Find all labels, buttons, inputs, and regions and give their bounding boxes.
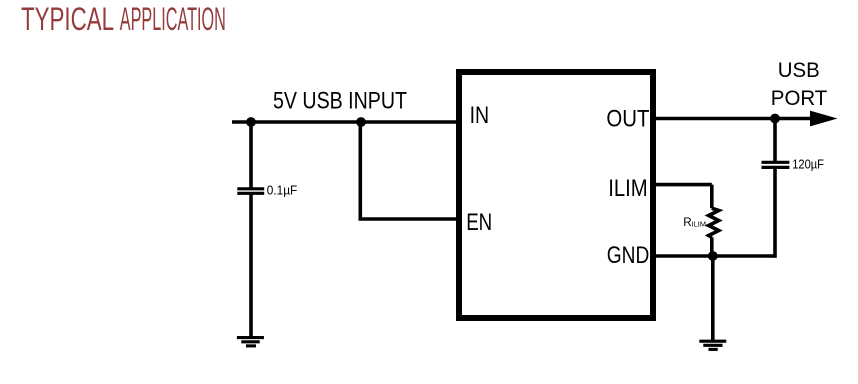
svg-text:5V USB INPUT: 5V USB INPUT — [273, 87, 407, 114]
wire: ILIM pin lead — [653, 183, 712, 187]
wire: GND2 lead — [711, 256, 715, 341]
capacitor C1 plates — [237, 187, 264, 190]
wire: EN branch horizontal — [359, 217, 460, 221]
IC U1 body — [459, 72, 653, 318]
ground GND1 — [237, 338, 264, 346]
wire: C2 bottom lead — [773, 167, 777, 257]
wire: R top lead — [710, 185, 714, 209]
svg-text:APPLICATION: APPLICATION — [120, 1, 226, 37]
svg-text:OUT: OUT — [606, 106, 649, 133]
svg-text:USB: USB — [778, 59, 820, 82]
svg-text:120µF: 120µF — [792, 157, 824, 172]
svg-text:RILIM: RILIM — [683, 216, 706, 229]
ground GND2 — [699, 341, 726, 349]
svg-text:EN: EN — [466, 209, 492, 236]
wire: C2 top lead — [773, 119, 777, 163]
svg-text:TYPICAL: TYPICAL — [21, 1, 114, 37]
wire: C1 bottom lead — [249, 193, 253, 337]
wire: OUT rail — [653, 117, 812, 121]
node: C1 junction — [246, 117, 256, 127]
wire: EN branch vertical — [358, 122, 362, 219]
svg-text:PORT: PORT — [771, 87, 828, 110]
node: EN junction — [356, 117, 366, 127]
node: GND junction — [708, 251, 718, 261]
svg-text:0.1µF: 0.1µF — [267, 183, 298, 198]
wire: R bottom lead — [710, 237, 714, 256]
arrow to USB port — [810, 111, 838, 127]
resistor R_ILIM zigzag — [709, 208, 719, 237]
wire: C1 top lead — [249, 122, 253, 188]
node: output junction — [770, 114, 780, 124]
svg-text:IN: IN — [470, 102, 490, 129]
wire: GND pin rail — [653, 254, 775, 258]
svg-text:GND: GND — [607, 242, 650, 269]
capacitor C2 plates — [762, 161, 790, 164]
wire: 5V input rail — [232, 120, 459, 124]
svg-text:ILIM: ILIM — [608, 175, 648, 202]
